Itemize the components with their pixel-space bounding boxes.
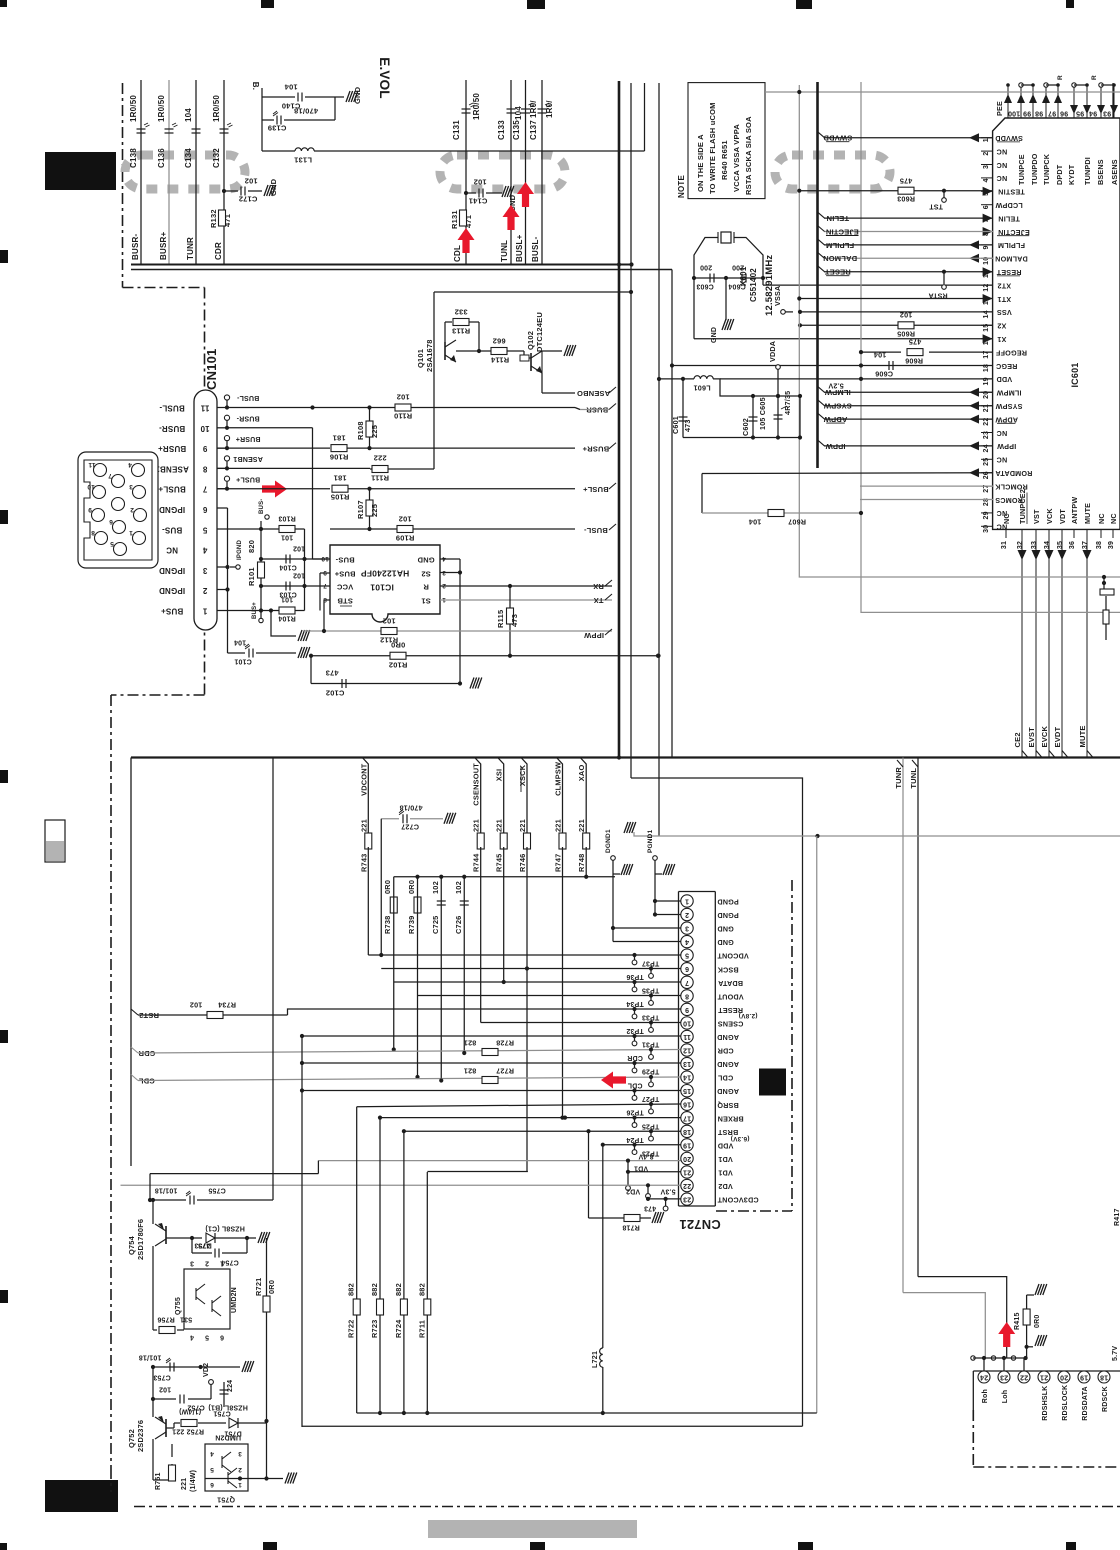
junction xyxy=(649,993,653,997)
junction xyxy=(656,654,660,658)
svg-text:BUSR+: BUSR+ xyxy=(582,445,609,454)
thick bus x817 xyxy=(816,82,819,468)
stub pin6 xyxy=(217,507,228,509)
svg-text:R111: R111 xyxy=(371,473,389,482)
wire pin1 xyxy=(655,900,681,902)
wire xyxy=(459,559,461,684)
svg-text:332: 332 xyxy=(454,307,467,316)
wire xyxy=(981,150,993,152)
svg-text:4: 4 xyxy=(983,178,990,182)
svg-text:18: 18 xyxy=(1100,1374,1108,1381)
wire xyxy=(997,141,1020,143)
svg-text:200: 200 xyxy=(700,264,712,271)
svg-text:37: 37 xyxy=(1082,541,1089,549)
wire xyxy=(997,275,1020,277)
svg-text:R110: R110 xyxy=(394,411,412,420)
svg-text:470/18: 470/18 xyxy=(294,106,318,115)
wire xyxy=(1103,577,1105,589)
svg-text:0R0: 0R0 xyxy=(1034,1315,1041,1328)
wire xyxy=(981,324,993,326)
wire xyxy=(222,1252,247,1254)
stub STB xyxy=(324,599,330,601)
capacitor C134 xyxy=(192,129,201,133)
arrow out pin 10 xyxy=(969,254,979,263)
wire xyxy=(1003,1358,1005,1371)
svg-text:TP29: TP29 xyxy=(642,1068,660,1075)
net flag FLPILM xyxy=(818,239,825,245)
junction xyxy=(815,834,819,838)
svg-text:7: 7 xyxy=(202,485,207,494)
wire xyxy=(972,1371,974,1410)
svg-text:(6.3V): (6.3V) xyxy=(731,1135,750,1142)
svg-text:UMD2N: UMD2N xyxy=(215,1434,241,1441)
arrow into pin 13 xyxy=(983,294,993,303)
net flag CDL xyxy=(131,1075,138,1081)
red arrow BUSL+ xyxy=(517,182,534,207)
terminal xyxy=(626,1186,631,1191)
wire box top xyxy=(434,291,631,293)
svg-text:5: 5 xyxy=(202,525,207,534)
wire xyxy=(150,1173,318,1175)
svg-text:R743: R743 xyxy=(359,854,368,872)
svg-text:CDR: CDR xyxy=(214,242,223,260)
junction xyxy=(761,276,765,280)
CN721 pin 9 xyxy=(681,1003,693,1015)
junction xyxy=(367,446,371,450)
inductor L721 xyxy=(600,1348,603,1367)
junction xyxy=(626,1170,630,1174)
wire xyxy=(580,409,609,411)
svg-text:8.4V: 8.4V xyxy=(638,1153,653,1160)
wire pin11 AGND xyxy=(302,1035,681,1037)
svg-text:471: 471 xyxy=(464,215,473,228)
wire xyxy=(650,1077,652,1082)
wire down to rail xyxy=(1021,538,1023,758)
wire xyxy=(240,1478,283,1480)
thick bus xyxy=(618,81,621,758)
DIN pin 4 xyxy=(132,464,145,477)
junction xyxy=(151,1365,155,1369)
svg-text:GND: GND xyxy=(717,938,734,947)
junction xyxy=(477,349,481,353)
terminal xyxy=(971,1356,975,1360)
svg-text:R752 221: R752 221 xyxy=(172,1428,204,1435)
wire xyxy=(981,391,993,393)
wire xyxy=(575,408,580,410)
junction xyxy=(1102,575,1106,579)
svg-text:CN101: CN101 xyxy=(204,349,219,390)
wire xyxy=(981,378,993,380)
capacitor C754 xyxy=(215,1249,219,1258)
svg-text:15: 15 xyxy=(683,1087,691,1094)
svg-text:VDT: VDT xyxy=(1058,509,1067,524)
wire xyxy=(138,1077,681,1081)
wire xyxy=(679,891,716,893)
arrow down bottom pin xyxy=(1032,550,1041,560)
wire down to rail xyxy=(1048,538,1050,758)
CN721 pin 5 xyxy=(681,949,693,961)
junction xyxy=(458,681,462,685)
stub pin3 xyxy=(217,566,228,568)
svg-text:221: 221 xyxy=(181,1478,188,1490)
svg-text:5: 5 xyxy=(685,952,689,959)
ground Q751 xyxy=(285,1473,297,1484)
arrow down bottom pin xyxy=(1083,550,1092,560)
terminal pin23 xyxy=(663,1206,668,1211)
wire xyxy=(650,1104,652,1109)
wire xyxy=(1061,529,1063,538)
svg-text:R727: R727 xyxy=(496,1067,514,1076)
resistor R711 xyxy=(424,1299,431,1315)
wire to bottom rail xyxy=(631,778,803,1426)
note outline xyxy=(688,83,765,199)
svg-text:7: 7 xyxy=(323,582,327,589)
svg-text:R114: R114 xyxy=(490,355,509,364)
wire pin8 ASENB1 xyxy=(217,467,370,469)
wire pin5 BUS- xyxy=(217,528,261,530)
wire bottom rail xyxy=(683,437,800,439)
svg-text:CDL: CDL xyxy=(627,1082,643,1089)
wire GND pin xyxy=(440,558,460,560)
net flag SYSPW xyxy=(818,400,825,406)
svg-text:BUSL-: BUSL- xyxy=(159,404,185,413)
junction xyxy=(392,1047,396,1051)
capacitor C606 xyxy=(889,361,893,370)
svg-text:HA12240FP: HA12240FP xyxy=(361,569,410,579)
DIN pin xyxy=(112,498,125,511)
svg-text:NOTE: NOTE xyxy=(677,175,686,198)
ground pin1 branch xyxy=(298,630,310,641)
IC601 top pin 94 xyxy=(1086,85,1088,118)
junction xyxy=(653,899,657,903)
capacitor C727 xyxy=(403,814,407,823)
junction xyxy=(601,1143,605,1147)
wire xyxy=(634,1145,636,1150)
svg-text:0R0: 0R0 xyxy=(391,640,405,649)
wire xyxy=(799,396,801,438)
net flag RST2 xyxy=(131,1009,138,1015)
svg-text:473: 473 xyxy=(325,668,338,677)
wire C101 xyxy=(228,652,246,654)
DIN pin 3 xyxy=(133,486,146,499)
wire xyxy=(824,244,993,246)
junction xyxy=(617,262,621,266)
svg-text:473: 473 xyxy=(644,1205,656,1212)
wire xyxy=(701,474,703,514)
resistor R738 xyxy=(390,897,397,913)
svg-text:X1: X1 xyxy=(997,335,1006,344)
svg-text:102: 102 xyxy=(293,545,305,552)
junction xyxy=(681,377,685,381)
svg-text:12: 12 xyxy=(683,1047,691,1054)
wire xyxy=(1027,1294,1034,1296)
svg-text:TP34: TP34 xyxy=(626,1000,644,1007)
svg-text:C133: C133 xyxy=(497,120,506,140)
resistor R104 xyxy=(279,607,295,614)
resistor R752 xyxy=(181,1420,197,1427)
wire xyxy=(130,758,132,1167)
resistor R106 xyxy=(331,445,347,452)
svg-text:RDSHSLK: RDSHSLK xyxy=(1042,1386,1049,1421)
wire xyxy=(1046,84,1058,86)
svg-text:TUNPDI: TUNPDI xyxy=(1083,157,1092,185)
junction xyxy=(724,276,728,280)
svg-text:0R0: 0R0 xyxy=(267,1280,276,1294)
resistor R723 xyxy=(377,1299,384,1315)
wire xyxy=(943,272,945,284)
wire xyxy=(410,818,443,820)
svg-text:6: 6 xyxy=(109,518,113,525)
wire pin19 VDD xyxy=(603,1144,681,1146)
svg-text:475: 475 xyxy=(900,177,913,186)
capacitor C103 xyxy=(286,582,290,591)
junction xyxy=(402,1129,406,1133)
wire C751 xyxy=(223,1382,225,1407)
svg-text:VST: VST xyxy=(1032,509,1041,524)
svg-text:9: 9 xyxy=(983,245,990,249)
wire xyxy=(111,694,205,696)
svg-text:C604: C604 xyxy=(728,283,746,290)
wire D753 xyxy=(166,1237,202,1239)
wire xyxy=(261,528,279,530)
wire xyxy=(658,378,694,380)
resistor R727 xyxy=(482,1077,498,1084)
CN721 pin 11 xyxy=(681,1030,693,1042)
stub pin ASENB1 xyxy=(217,467,227,469)
wire xyxy=(733,232,735,243)
resistor R111 xyxy=(372,466,388,473)
resistor R746 xyxy=(524,833,531,849)
svg-text:BUSR+: BUSR+ xyxy=(158,444,186,453)
svg-text:221: 221 xyxy=(554,819,563,832)
svg-text:VDCONT: VDCONT xyxy=(359,763,368,796)
svg-text:E.VOL: E.VOL xyxy=(377,57,392,99)
wire C134 column xyxy=(195,80,197,264)
junction xyxy=(601,1411,605,1415)
CN721 pin 23 xyxy=(681,1193,693,1205)
IC601 top pin 100 xyxy=(1007,85,1009,118)
junction xyxy=(300,1088,304,1092)
flags CE2 EVST EVCK EVDT MUTE xyxy=(1022,751,1028,758)
junction xyxy=(859,377,863,381)
svg-text:VDCONT: VDCONT xyxy=(717,952,749,961)
svg-text:1R0/50: 1R0/50 xyxy=(129,95,138,122)
junction xyxy=(300,1034,304,1038)
wire xyxy=(1005,529,1007,538)
wire C136 column xyxy=(168,80,170,264)
wire xyxy=(634,982,636,987)
wire xyxy=(237,1418,239,1428)
svg-text:2: 2 xyxy=(130,506,134,513)
wire xyxy=(826,275,849,277)
svg-text:C172: C172 xyxy=(239,194,258,203)
svg-text:RX: RX xyxy=(593,582,604,591)
wire xyxy=(981,485,993,487)
wire VD2 xyxy=(121,1184,681,1186)
wire xyxy=(153,1479,172,1481)
svg-text:11: 11 xyxy=(200,404,209,413)
wire xyxy=(983,1358,985,1371)
net flag RX xyxy=(605,580,612,586)
junction xyxy=(148,1198,152,1202)
svg-text:102: 102 xyxy=(190,1001,203,1010)
wire pin13 AGND xyxy=(302,1062,681,1064)
arrow out pin 21 xyxy=(969,401,979,410)
wire xyxy=(529,357,531,359)
wire Loh xyxy=(918,1277,1007,1358)
svg-text:NC: NC xyxy=(996,161,1007,170)
wire xyxy=(981,499,993,501)
svg-text:882: 882 xyxy=(370,1283,379,1296)
ground y836 xyxy=(624,822,636,833)
svg-text:IPGND: IPGND xyxy=(159,566,185,575)
svg-text:DALMON: DALMON xyxy=(995,255,1028,264)
svg-text:TP31: TP31 xyxy=(642,1041,660,1048)
wire x304 column xyxy=(304,529,306,611)
wire xyxy=(381,818,399,820)
DIN pin 8 xyxy=(95,532,108,545)
wire xyxy=(149,1174,151,1200)
wire R711 top xyxy=(427,1171,528,1173)
svg-text:98: 98 xyxy=(1035,110,1043,117)
svg-text:C551402: C551402 xyxy=(749,268,758,302)
junction xyxy=(439,1078,443,1082)
wire xyxy=(295,528,305,530)
svg-text:8: 8 xyxy=(202,464,207,473)
wire ASENB0 xyxy=(541,373,543,393)
DIN pin 5 xyxy=(114,543,127,556)
svg-text:TP37: TP37 xyxy=(642,960,660,967)
svg-text:13: 13 xyxy=(683,1060,691,1067)
ground R415 top xyxy=(1035,1284,1047,1295)
svg-text:R105: R105 xyxy=(331,492,350,501)
junction xyxy=(1002,1356,1006,1360)
junction xyxy=(415,1075,419,1079)
svg-text:1R0/: 1R0/ xyxy=(529,100,538,118)
svg-text:RDSCK: RDSCK xyxy=(1102,1386,1109,1412)
wire xyxy=(1021,529,1023,538)
svg-text:221: 221 xyxy=(518,819,527,832)
junction xyxy=(626,1159,630,1163)
svg-text:23: 23 xyxy=(683,1196,691,1203)
svg-text:VD1: VD1 xyxy=(718,1169,733,1178)
svg-text:RDSDATA: RDSDATA xyxy=(1082,1386,1089,1421)
svg-text:NC: NC xyxy=(166,546,178,555)
wire xyxy=(510,80,512,264)
svg-text:100: 100 xyxy=(1008,110,1020,117)
wire E.VOL to right xyxy=(314,150,645,152)
junction xyxy=(656,654,660,658)
svg-text:4: 4 xyxy=(128,461,132,468)
RDS connector top xyxy=(973,1370,1120,1372)
wire x659 xyxy=(658,83,660,836)
transistor array Q755 UMD2N xyxy=(184,1269,230,1329)
mini-DIN connector face xyxy=(78,452,158,568)
wire x273 xyxy=(272,758,274,1201)
junction xyxy=(657,377,661,381)
svg-text:Loh: Loh xyxy=(1002,1390,1009,1403)
capacitor C602 xyxy=(749,417,758,421)
DIN pin 2 xyxy=(134,509,147,522)
svg-text:VD2: VD2 xyxy=(203,1363,210,1377)
right edge wire xyxy=(1112,83,1114,130)
svg-text:5: 5 xyxy=(210,1466,214,1473)
junction xyxy=(302,584,306,588)
transistor Q102 DTC124EU xyxy=(530,353,532,371)
svg-text:BUSL-: BUSL- xyxy=(531,236,540,262)
wire R721 column xyxy=(266,1238,268,1479)
ground DGND1 xyxy=(621,864,633,875)
wire X2 xyxy=(800,324,993,326)
svg-text:C727: C727 xyxy=(401,823,419,832)
capacitor C137 xyxy=(538,109,547,113)
CN721 pin 8 xyxy=(681,990,693,1002)
svg-text:BUS-: BUS- xyxy=(259,499,265,514)
wire xyxy=(1086,529,1088,538)
wire xyxy=(824,231,993,233)
svg-text:UMD2N: UMD2N xyxy=(231,1287,238,1313)
test point TP25 xyxy=(632,1123,637,1128)
wire xyxy=(981,338,993,340)
junction xyxy=(1006,83,1010,87)
wire xyxy=(334,97,336,120)
terminal RSTA xyxy=(942,285,947,290)
test point TP35 xyxy=(632,987,637,992)
svg-text:C601: C601 xyxy=(671,416,680,434)
resistor R747 xyxy=(559,833,566,849)
junction xyxy=(300,1061,304,1065)
terminal xyxy=(646,1194,651,1199)
wire C102 xyxy=(311,683,460,685)
wire C754 xyxy=(191,1238,193,1253)
test point TP32 xyxy=(649,1028,654,1033)
wire C605 xyxy=(777,396,779,438)
wire xyxy=(580,758,586,836)
svg-text:TP25: TP25 xyxy=(642,1122,660,1129)
svg-text:224: 224 xyxy=(227,1380,234,1392)
wire xyxy=(824,418,993,420)
wire ROMCS xyxy=(860,499,993,501)
wire xyxy=(716,1210,792,1212)
svg-text:VSSA: VSSA xyxy=(773,286,782,306)
wire x301 xyxy=(301,1036,303,1427)
wire xyxy=(981,432,993,434)
junction xyxy=(225,466,229,470)
svg-text:IPGND: IPGND xyxy=(237,540,243,560)
wire X1 xyxy=(694,338,993,340)
svg-text:RSTA SCKA SIA SOA: RSTA SCKA SIA SOA xyxy=(744,116,753,195)
arrow out pin 26 xyxy=(969,468,979,477)
junction xyxy=(632,1088,636,1092)
junction xyxy=(1024,1356,1028,1360)
svg-text:R718: R718 xyxy=(622,1224,640,1231)
ground C141 xyxy=(502,186,514,197)
svg-text:GND: GND xyxy=(711,327,718,343)
svg-text:VDOUT: VDOUT xyxy=(717,992,744,1001)
svg-text:IC101: IC101 xyxy=(370,583,394,593)
svg-text:L131: L131 xyxy=(294,155,312,164)
junction xyxy=(646,1183,650,1187)
arrow down bottom pin xyxy=(1045,550,1054,560)
svg-text:EJECTIN: EJECTIN xyxy=(826,227,859,236)
wire xyxy=(261,610,279,612)
test point TP37 xyxy=(632,960,637,965)
wire xyxy=(226,461,228,468)
junction xyxy=(199,1365,203,1369)
terminal xyxy=(991,1356,995,1360)
wire xyxy=(1048,529,1050,538)
svg-text:102: 102 xyxy=(398,514,411,523)
